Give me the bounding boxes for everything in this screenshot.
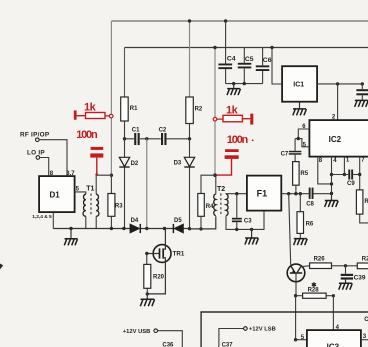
resistor R1: [121, 97, 138, 139]
svg-text:R5: R5: [300, 171, 308, 177]
svg-text:C4: C4: [227, 56, 236, 63]
node junction D2 bottom: [122, 227, 125, 230]
svg-text:C38: C38: [364, 317, 368, 323]
svg-text:1,2,4 & 5: 1,2,4 & 5: [32, 214, 52, 220]
wire second supply rail: [125, 47, 368, 49]
svg-text:C37: C37: [222, 342, 234, 347]
wire IC2 pin4: [331, 157, 333, 194]
capacitor C8: [306, 188, 331, 208]
node junction R26 C39: [344, 264, 347, 267]
resistor R27: [346, 257, 368, 269]
svg-text:RF IP/OP: RF IP/OP: [20, 132, 50, 139]
transistor Q (audio stage): [287, 264, 309, 296]
node junction R1 C1 D2: [123, 137, 126, 140]
resistor R3: [108, 175, 123, 228]
resistor R20: [144, 254, 165, 294]
svg-text:R7: R7: [364, 199, 368, 205]
svg-text:100n: 100n: [227, 134, 249, 146]
ground under R20: [140, 294, 154, 306]
node junction second rail IC1: [270, 46, 273, 49]
svg-text:LO IP: LO IP: [27, 150, 45, 157]
wire IC2 pin8: [318, 157, 332, 184]
svg-text:C8: C8: [306, 202, 314, 208]
capacitor C6: [256, 48, 272, 84]
node junction T2 right top / C3 / F1: [235, 192, 238, 195]
svg-text:C6: C6: [263, 57, 272, 64]
IC1: [272, 48, 317, 109]
capacitor 100n (red, right modification): [216, 134, 254, 175]
wire IC1 output: [317, 83, 362, 85]
wire ground rail under D1/T1: [53, 228, 130, 230]
wire IC2 pin2: [337, 84, 339, 120]
node junction pin4 C8 output: [330, 192, 333, 195]
resistor R4: [198, 175, 215, 229]
terminal LO IP: [27, 150, 49, 177]
wire IC2 pin1: [343, 157, 345, 175]
ground under C8 line: [325, 194, 339, 208]
svg-text:100n: 100n: [76, 129, 98, 141]
node junction D5 main vertical: [188, 227, 191, 230]
svg-text:+12V USB: +12V USB: [123, 329, 151, 335]
svg-text:R2: R2: [195, 107, 203, 113]
wire base to IC3 pin5: [296, 296, 307, 340]
node junction pin4 wire-to-C9: [330, 173, 333, 176]
capacitor 100n (red, left modification): [76, 129, 111, 176]
wire R2 branch vertical: [189, 21, 191, 97]
resistor R28 with asterisk: [296, 282, 334, 298]
svg-text:R4: R4: [206, 204, 214, 210]
capacitor C1: [125, 127, 147, 145]
IC3: [307, 330, 361, 347]
node junction base R28: [294, 294, 297, 297]
capacitor C9: [332, 170, 360, 188]
wire IC2 pin6: [298, 129, 309, 139]
node junction T2 top R4 red-cap: [213, 173, 217, 177]
ground under C4 C5 C6: [227, 84, 241, 96]
svg-text:R26: R26: [314, 257, 326, 263]
svg-text:IC2: IC2: [329, 135, 342, 144]
node junction pin1 C9: [343, 173, 346, 176]
svg-text:R1: R1: [130, 106, 138, 112]
diode D4: [130, 218, 147, 233]
node junction ground stem under caps: [232, 82, 235, 85]
node junction pins 5/6 C7: [297, 137, 300, 140]
svg-text:IC3: IC3: [327, 343, 340, 347]
node junction pin4 pin8: [330, 182, 333, 185]
terminal +12V USB: [123, 329, 183, 347]
svg-text:R20: R20: [153, 275, 165, 281]
node junction ground stem under C3: [250, 228, 253, 231]
node junction top rail C4: [224, 19, 227, 22]
svg-text:R3: R3: [115, 204, 123, 210]
IC2: [309, 120, 368, 157]
svg-text:R27: R27: [362, 257, 368, 263]
ground under IC1: [293, 109, 307, 116]
resistor R7: [356, 190, 368, 223]
svg-text:T1: T1: [86, 186, 94, 193]
resistor 1k (red, right modification): [213, 104, 253, 124]
terminal +12V LSB: [219, 327, 276, 347]
diode D2: [119, 139, 139, 229]
node junction T1 top / R3 / vertical: [110, 174, 113, 177]
transformer T2: [214, 175, 264, 229]
wire D1 pin5 to T1: [75, 192, 86, 194]
svg-text:F1: F1: [257, 189, 268, 199]
wire IC2 pin5: [295, 139, 309, 147]
wire transistor base feed: [289, 194, 291, 265]
node junction top rail R2: [188, 19, 191, 22]
wire left vertical from top rail: [110, 21, 112, 175]
svg-text:C5: C5: [245, 56, 254, 63]
node junction C1 C2 gate-line: [145, 137, 148, 140]
edge artifact left: [0, 264, 3, 270]
svg-text:R28: R28: [308, 288, 320, 294]
svg-text:T2: T2: [217, 186, 225, 193]
svg-text:D2: D2: [131, 161, 139, 167]
svg-text:C3: C3: [244, 219, 252, 225]
capacitor C7: [281, 139, 302, 162]
capacitor C5: [238, 48, 254, 84]
node junction R5 bottom: [294, 192, 297, 195]
svg-text:D1: D1: [50, 190, 61, 199]
diode D3: [174, 139, 195, 229]
wire IC2 pin7: [359, 157, 361, 190]
diode D5: [173, 218, 189, 233]
svg-text:C9: C9: [347, 181, 355, 187]
resistor R6: [297, 194, 314, 239]
svg-text:1k: 1k: [226, 104, 239, 116]
ground under R6: [294, 239, 308, 246]
wire cap bottom rail: [226, 83, 263, 85]
wire top supply rail: [111, 20, 368, 22]
capacitor C2: [147, 127, 190, 145]
capacitor at IC1 output: [356, 84, 368, 101]
ground under cap at IC1 output: [355, 100, 368, 107]
wire R28 to IC3 pin4: [332, 296, 334, 330]
terminal RF IP/OP: [20, 132, 67, 177]
wire rail D4 to D5: [147, 228, 174, 230]
node junction R28 right: [332, 294, 335, 297]
transformer T1: [83, 175, 111, 228]
resistor R5: [293, 162, 309, 194]
node junction decoupling cap: [361, 82, 364, 85]
node junction TR1 drain: [163, 227, 166, 230]
wire rail to T2 left bottom: [190, 216, 216, 229]
svg-text:D4: D4: [131, 218, 139, 224]
capacitor C4: [218, 21, 235, 84]
svg-text:C2: C2: [159, 127, 167, 133]
node junction pin7 C9: [358, 173, 361, 176]
node junction second rail T2-line: [213, 46, 216, 49]
node junction C3 bottom: [235, 228, 238, 231]
svg-text:D3: D3: [174, 160, 182, 166]
svg-text:C7: C7: [281, 151, 289, 157]
wire long vertical to T2: [214, 48, 216, 176]
wire corner down to R1: [124, 48, 126, 98]
node junction R20 source ground: [146, 292, 149, 295]
node junction transistor branch: [287, 192, 290, 195]
resistor R2: [186, 97, 203, 139]
ground under D1: [64, 229, 77, 246]
node junction R3 bottom: [110, 227, 113, 230]
filter F1: [247, 176, 281, 211]
capacitor C39: [341, 266, 366, 283]
svg-text:C36: C36: [162, 342, 174, 347]
capacitor C3: [232, 194, 252, 230]
resistor 1k (red, left modification): [74, 101, 113, 119]
svg-text:+12V LSB: +12V LSB: [249, 327, 276, 333]
node junction R4 bottom: [199, 227, 202, 230]
wire gate line vertical: [146, 139, 148, 229]
svg-text:R6: R6: [306, 222, 314, 228]
node junction C2 R2 D3: [188, 137, 191, 140]
wire IC3 pin3: [361, 339, 368, 341]
svg-text:C1: C1: [132, 127, 140, 133]
svg-text:D5: D5: [174, 218, 182, 224]
svg-text:IC1: IC1: [293, 81, 304, 88]
svg-text:TR1: TR1: [173, 251, 185, 258]
wire F1 output line: [281, 193, 308, 195]
node junction TR1 gate R20: [145, 252, 148, 255]
svg-text:1k: 1k: [84, 101, 97, 113]
resistor R26: [310, 257, 346, 269]
node junction D4 gate-line: [145, 227, 148, 230]
ground under C3: [245, 229, 259, 244]
wire D1 bottom stub: [52, 212, 54, 228]
transistor TR1: [147, 229, 185, 294]
node junction C5 bottom: [243, 82, 246, 85]
ground under C39: [339, 283, 353, 290]
node junction ground stem: [69, 227, 72, 230]
enclosure box bottom: [201, 312, 368, 347]
node junction IC1 out to IC2 pin2: [336, 82, 339, 85]
svg-text:C39: C39: [354, 274, 366, 281]
node junction pin5: [294, 338, 297, 341]
mixer D1: [39, 176, 75, 212]
node junction R6 top: [299, 192, 302, 195]
